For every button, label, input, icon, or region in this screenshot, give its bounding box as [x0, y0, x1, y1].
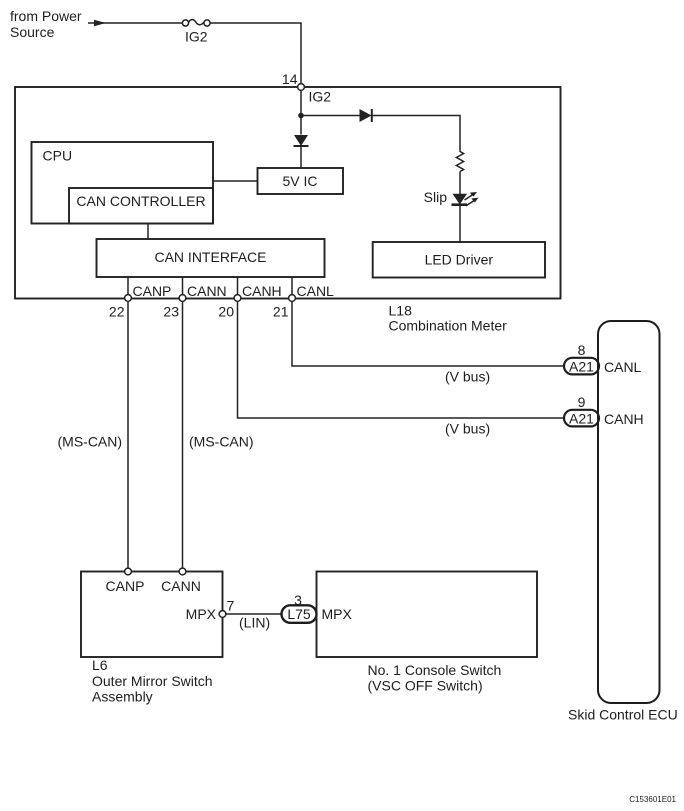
connector A21 pin 8: [564, 342, 599, 375]
svg-text:L75: L75: [287, 606, 311, 622]
svg-text:(MS-CAN): (MS-CAN): [189, 434, 254, 450]
svg-text:C153601E01: C153601E01: [629, 795, 676, 804]
wire CANH internal: [237, 277, 239, 298]
wire CPU to 5V IC: [213, 180, 258, 182]
svg-text:(LIN): (LIN): [239, 615, 270, 631]
wire CANP internal: [127, 277, 129, 298]
resistor R (LED dropper): [456, 152, 463, 172]
svg-text:CANN: CANN: [187, 283, 227, 299]
wire diode D2 to resistor: [372, 116, 460, 153]
svg-text:(VSC OFF Switch): (VSC OFF Switch): [368, 678, 483, 694]
svg-text:A21: A21: [569, 411, 594, 427]
wire CANH bus to A21 pin 9: [238, 301, 564, 418]
connector L75 pin 3: [282, 592, 317, 623]
svg-text:MPX: MPX: [322, 606, 353, 622]
svg-text:CANL: CANL: [604, 359, 642, 375]
pin 23: [163, 295, 185, 320]
node L18 Combination Meter label: [389, 303, 508, 334]
svg-text:3: 3: [294, 592, 302, 608]
fuse IG2: [182, 20, 210, 26]
No.1 Console Switch box: [317, 572, 538, 658]
svg-text:14: 14: [282, 71, 298, 87]
Outer Mirror Switch Assembly box L6: [81, 572, 223, 658]
svg-text:5V IC: 5V IC: [282, 173, 317, 189]
node L6 Outer Mirror Switch Assembly label: [92, 657, 213, 705]
wire LIN: [226, 613, 282, 615]
svg-text:23: 23: [163, 304, 179, 320]
svg-text:CANH: CANH: [242, 283, 282, 299]
CPU box: [32, 142, 214, 224]
svg-text:(MS-CAN): (MS-CAN): [58, 434, 123, 450]
svg-text:Outer Mirror Switch: Outer Mirror Switch: [92, 673, 213, 689]
wire CAN CONTROLLER to CAN INTERFACE: [147, 224, 149, 240]
svg-text:CAN INTERFACE: CAN INTERFACE: [154, 249, 266, 265]
connector A21 pin 9: [564, 394, 599, 427]
svg-text:LED Driver: LED Driver: [425, 252, 494, 268]
wire junction to diode D2 branch: [301, 115, 360, 117]
CAN INTERFACE box: [97, 239, 325, 277]
svg-text:(V bus): (V bus): [445, 369, 490, 385]
svg-text:from Power: from Power: [10, 8, 82, 24]
LED Driver box: [373, 242, 545, 278]
svg-text:CANH: CANH: [604, 411, 644, 427]
wire MS-CAN CANP down: [127, 301, 129, 568]
wire power feed with arrow: [88, 20, 182, 27]
svg-text:CPU: CPU: [43, 148, 73, 164]
wire CANN internal: [182, 277, 184, 298]
pin 22: [109, 295, 131, 320]
svg-text:8: 8: [578, 342, 586, 358]
pin 21: [273, 295, 295, 320]
pin CANP (mirror): [106, 568, 145, 594]
svg-text:A21: A21: [569, 359, 594, 375]
wire diode to 5V IC: [300, 146, 302, 168]
svg-text:IG2: IG2: [309, 89, 332, 105]
svg-text:Slip: Slip: [424, 189, 448, 205]
wire MS-CAN CANN down: [182, 301, 184, 568]
svg-text:(V bus): (V bus): [445, 421, 490, 437]
svg-text:7: 7: [227, 598, 235, 614]
svg-text:CANN: CANN: [161, 578, 201, 594]
svg-text:20: 20: [218, 304, 234, 320]
wire LED to LED Driver: [459, 205, 461, 242]
svg-text:9: 9: [578, 394, 586, 410]
svg-text:CANP: CANP: [133, 283, 172, 299]
svg-text:Skid Control ECU: Skid Control ECU: [568, 707, 678, 723]
svg-text:Combination Meter: Combination Meter: [389, 318, 508, 334]
node from Power Source label: [10, 8, 82, 40]
pin 20: [218, 295, 240, 320]
node No.1 Console Switch caption: [368, 662, 502, 694]
svg-text:CANP: CANP: [106, 578, 145, 594]
svg-text:IG2: IG2: [185, 29, 208, 45]
combination meter box L18: [15, 87, 561, 299]
svg-text:CAN CONTROLLER: CAN CONTROLLER: [76, 193, 205, 209]
diode D2 (to LED branch): [360, 109, 372, 122]
svg-text:21: 21: [273, 304, 289, 320]
pin 7: [219, 598, 234, 618]
wire pin14 down to junction: [300, 90, 302, 134]
svg-text:No. 1 Console Switch: No. 1 Console Switch: [368, 662, 502, 678]
pin CANN (mirror): [161, 568, 201, 594]
svg-text:L18: L18: [389, 303, 413, 319]
junction: [298, 113, 304, 119]
svg-text:Source: Source: [10, 24, 55, 40]
svg-text:MPX: MPX: [186, 606, 217, 622]
svg-text:L6: L6: [92, 657, 108, 673]
svg-text:CANL: CANL: [297, 283, 335, 299]
svg-text:22: 22: [109, 304, 125, 320]
svg-text:Assembly: Assembly: [92, 689, 153, 705]
wire CANL internal: [291, 277, 293, 298]
pin 14: [282, 71, 304, 90]
Skid Control ECU box: [568, 321, 678, 723]
wire resistor to LED: [459, 172, 461, 195]
5V IC box: [258, 168, 344, 194]
wire fuse to pin 14: [210, 23, 301, 84]
wire CANL bus to A21 pin 8: [292, 301, 564, 366]
LED Slip indicator: [452, 192, 479, 206]
CAN CONTROLLER box: [69, 188, 213, 224]
diode D1 (to 5V IC): [294, 135, 309, 146]
